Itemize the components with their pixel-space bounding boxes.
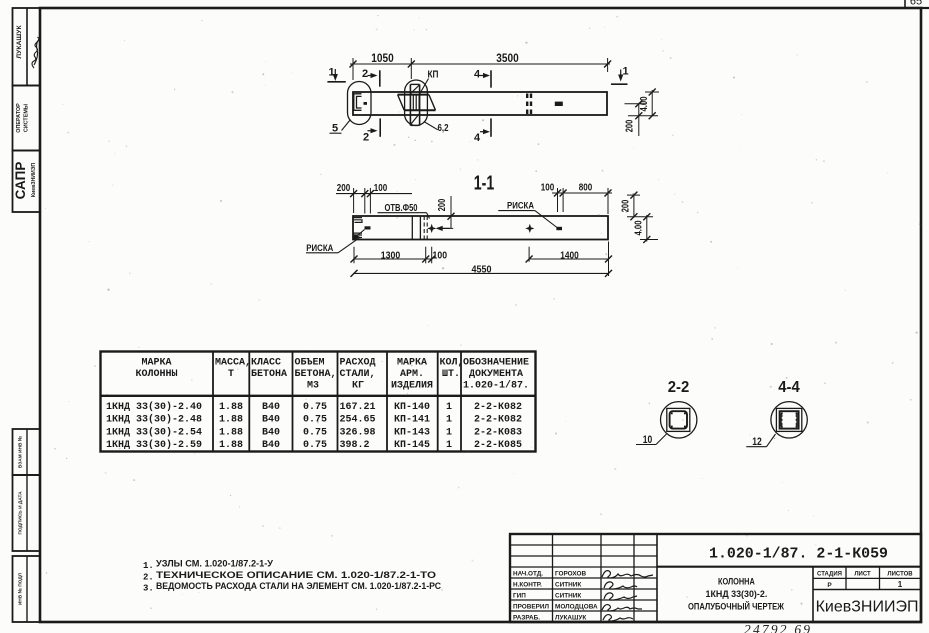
svg-text:100: 100 [374, 182, 388, 194]
svg-text:ИНВ № ПОДЛ: ИНВ № ПОДЛ [18, 572, 24, 605]
svg-text:4: 4 [474, 69, 481, 81]
svg-text:100: 100 [541, 182, 555, 194]
svg-text:2-2: 2-2 [668, 379, 690, 396]
svg-text:0.75: 0.75 [303, 440, 327, 451]
svg-text:СИТНИК: СИТНИК [555, 582, 581, 589]
svg-text:1КНД 33(30)-2.59: 1КНД 33(30)-2.59 [106, 439, 202, 451]
svg-text:254.65: 254.65 [340, 415, 376, 426]
svg-text:1КНД 33(30)-2.: 1КНД 33(30)-2. [706, 589, 768, 600]
svg-text:1.: 1. [143, 561, 154, 571]
svg-text:В40: В40 [262, 402, 280, 413]
svg-text:1КНД 33(30)-2.40: 1КНД 33(30)-2.40 [106, 401, 202, 413]
svg-text:БЕТОНА,: БЕТОНА, [295, 369, 337, 380]
svg-text:ПРОВЕРИЛ: ПРОВЕРИЛ [513, 604, 549, 611]
svg-text:1: 1 [446, 440, 452, 451]
svg-text:1: 1 [446, 427, 452, 438]
svg-text:3.: 3. [143, 584, 154, 594]
svg-text:КП-141: КП-141 [394, 415, 430, 426]
svg-text:ОПАЛУБОЧНЫЙ ЧЕРТЕЖ: ОПАЛУБОЧНЫЙ ЧЕРТЕЖ [688, 601, 784, 613]
svg-text:СТАДИЯ: СТАДИЯ [817, 572, 842, 578]
svg-text:1.88: 1.88 [219, 427, 243, 438]
svg-text:1-1: 1-1 [474, 173, 495, 195]
svg-text:СТАЛИ,: СТАЛИ, [340, 369, 376, 380]
svg-text:КП-145: КП-145 [394, 440, 430, 451]
svg-text:200: 200 [624, 119, 635, 132]
svg-text:УЗЛЫ СМ. 1.020-1/87.2-1-У: УЗЛЫ СМ. 1.020-1/87.2-1-У [156, 559, 273, 570]
svg-text:12: 12 [752, 436, 762, 448]
svg-text:2-2-К083: 2-2-К083 [474, 427, 522, 438]
svg-text:0.75: 0.75 [303, 427, 327, 438]
svg-text:МАРКА: МАРКА [397, 358, 427, 369]
svg-text:1050: 1050 [371, 53, 393, 65]
svg-text:4.00: 4.00 [639, 96, 650, 111]
svg-text:398.2: 398.2 [340, 440, 370, 451]
svg-text:1.88: 1.88 [219, 440, 243, 451]
svg-text:РИСКА: РИСКА [507, 201, 534, 212]
svg-text:2-2-К085: 2-2-К085 [474, 440, 522, 451]
svg-text:1КНД 33(30)-2.54: 1КНД 33(30)-2.54 [106, 426, 202, 438]
svg-text:ВЗАМ ИНВ №: ВЗАМ ИНВ № [18, 436, 24, 468]
svg-text:1: 1 [328, 67, 334, 79]
svg-text:1: 1 [622, 66, 628, 78]
svg-text:ЛУКАШУК: ЛУКАШУК [16, 25, 23, 59]
svg-text:2: 2 [362, 68, 368, 80]
svg-text:БЕТОНА: БЕТОНА [251, 369, 287, 380]
svg-text:ВЕДОМОСТЬ РАСХОДА СТАЛИ НА ЭЛЕ: ВЕДОМОСТЬ РАСХОДА СТАЛИ НА ЭЛЕМЕНТ СМ. 1… [156, 581, 441, 592]
svg-text:10: 10 [643, 434, 653, 446]
svg-text:М3: М3 [307, 381, 319, 392]
svg-text:САПР: САПР [13, 162, 28, 200]
svg-text:4-4: 4-4 [778, 379, 800, 396]
svg-text:Н.КОНТР.: Н.КОНТР. [513, 582, 542, 589]
svg-text:1300: 1300 [381, 250, 401, 262]
svg-text:ОБОЗНАЧЕНИЕ: ОБОЗНАЧЕНИЕ [463, 358, 529, 369]
svg-text:СИСТЕМЫ: СИСТЕМЫ [24, 104, 30, 132]
svg-text:1: 1 [446, 415, 452, 426]
svg-text:КП-143: КП-143 [394, 427, 430, 438]
svg-text:ЛИСТ: ЛИСТ [854, 572, 871, 578]
svg-text:ЛИСТОВ: ЛИСТОВ [887, 572, 913, 578]
svg-text:В40: В40 [262, 415, 280, 426]
svg-text:800: 800 [579, 182, 593, 194]
svg-text:НАЧ.ОТД.: НАЧ.ОТД. [513, 571, 543, 578]
svg-text:3500: 3500 [496, 53, 518, 65]
svg-text:2: 2 [363, 132, 369, 144]
svg-text:4: 4 [474, 132, 481, 144]
svg-text:ЛУКАШУК: ЛУКАШУК [555, 615, 586, 622]
svg-text:МАССА,: МАССА, [215, 358, 251, 369]
svg-text:ДОКУМЕНТА: ДОКУМЕНТА [469, 369, 523, 380]
svg-text:0.75: 0.75 [303, 415, 327, 426]
svg-text:1КНД 33(30)-2.48: 1КНД 33(30)-2.48 [106, 414, 202, 426]
svg-text:1.020-1/87.: 1.020-1/87. [463, 380, 529, 392]
svg-text:100: 100 [433, 250, 448, 262]
svg-text:В40: В40 [262, 427, 280, 438]
svg-text:КП: КП [428, 70, 439, 81]
svg-text:КГ: КГ [352, 381, 364, 392]
svg-text:ИЗДЕЛИЯ: ИЗДЕЛИЯ [391, 381, 433, 392]
svg-text:1: 1 [898, 580, 903, 589]
svg-text:1: 1 [446, 402, 452, 413]
svg-text:24792 69: 24792 69 [744, 622, 812, 633]
svg-text:ПОДПИСЬ И ДАТА: ПОДПИСЬ И ДАТА [18, 491, 24, 535]
svg-text:КОЛОННЫ: КОЛОННЫ [135, 369, 177, 380]
svg-text:4.00: 4.00 [634, 220, 645, 235]
svg-text:РАСХОД: РАСХОД [340, 358, 376, 369]
svg-text:ОПЕРАТОР: ОПЕРАТОР [16, 103, 22, 133]
svg-text:5: 5 [332, 123, 338, 135]
svg-text:2-2-К082: 2-2-К082 [474, 402, 522, 413]
svg-text:МОЛОДЦОВА: МОЛОДЦОВА [555, 604, 598, 611]
svg-text:ТЕХНИЧЕСКОЕ ОПИСАНИЕ СМ. 1.020: ТЕХНИЧЕСКОЕ ОПИСАНИЕ СМ. 1.020-1/87.2-1-… [156, 570, 436, 581]
svg-text:КиевЗНИИЭП: КиевЗНИИЭП [816, 599, 919, 616]
svg-text:ГИП: ГИП [513, 593, 526, 600]
svg-text:65: 65 [910, 0, 922, 8]
svg-text:6,2: 6,2 [438, 123, 449, 134]
svg-text:МАРКА: МАРКА [141, 358, 171, 369]
svg-text:167.21: 167.21 [340, 402, 376, 413]
svg-text:ШТ.: ШТ. [442, 369, 460, 380]
svg-text:Т: Т [228, 369, 234, 380]
svg-text:200: 200 [437, 198, 448, 211]
svg-text:РАЗРАБ.: РАЗРАБ. [513, 615, 540, 622]
svg-text:СИТНИК: СИТНИК [555, 593, 581, 600]
svg-text:КОЛОННА: КОЛОННА [718, 577, 755, 588]
svg-text:КЛАСС: КЛАСС [251, 358, 281, 369]
svg-text:4550: 4550 [472, 264, 492, 276]
svg-text:Р: Р [827, 582, 832, 589]
svg-text:1.020-1/87. 2-1-К059: 1.020-1/87. 2-1-К059 [709, 546, 888, 563]
svg-text:КОЛ,: КОЛ, [440, 358, 464, 369]
svg-text:ГОРОХОВ: ГОРОХОВ [555, 571, 586, 578]
svg-text:КП-140: КП-140 [394, 402, 430, 413]
svg-text:2-2-К082: 2-2-К082 [474, 415, 522, 426]
svg-text:1.88: 1.88 [219, 402, 243, 413]
svg-text:АРМ.: АРМ. [400, 369, 424, 380]
svg-text:КиевЗНИИЭП: КиевЗНИИЭП [31, 163, 37, 198]
svg-text:326.98: 326.98 [340, 427, 376, 438]
svg-text:ОБЪЕМ: ОБЪЕМ [295, 358, 325, 369]
svg-text:1400: 1400 [560, 250, 579, 262]
svg-text:200: 200 [337, 182, 351, 194]
svg-text:2.: 2. [143, 572, 154, 582]
svg-text:В40: В40 [262, 440, 280, 451]
svg-text:1.88: 1.88 [219, 415, 243, 426]
svg-text:200: 200 [621, 199, 632, 212]
svg-text:0.75: 0.75 [303, 402, 327, 413]
